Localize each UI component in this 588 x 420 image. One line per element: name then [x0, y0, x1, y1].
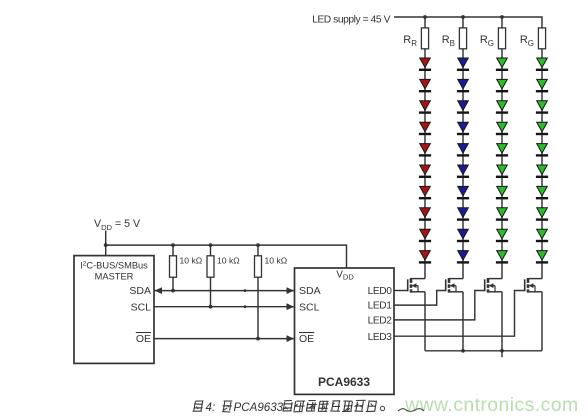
junction R1 on SDA line [171, 289, 175, 293]
wire VDD to R3 [257, 245, 259, 256]
wire VDD to R2 [210, 245, 212, 256]
wire Q2 source drop [462, 292, 464, 351]
LED D1-5 [419, 144, 431, 157]
svg-text:SCL: SCL [299, 302, 320, 314]
wire supply to resistor RG [501, 17, 503, 28]
svg-text:I2C-BUS/SMBus: I2C-BUS/SMBus [80, 261, 148, 271]
junction R2 on SCL line [209, 305, 213, 309]
LED D3-10 [496, 251, 508, 264]
caption figure 4 text [193, 400, 385, 414]
svg-text:4:: 4: [206, 401, 216, 414]
resistor RR1 (RR) [421, 28, 428, 49]
LED D2-9 [457, 229, 469, 242]
svg-text:www.cntronics.com: www.cntronics.com [404, 394, 579, 416]
LED D2-10 [457, 251, 469, 264]
LED D2-6 [457, 165, 469, 178]
wire LED supply rail [394, 17, 542, 28]
wire OE net [154, 338, 295, 340]
wire Q4 source drop [541, 292, 543, 351]
LED D4-9 [536, 229, 548, 242]
wire Q1 source drop [424, 292, 426, 351]
LED D4-3 [536, 101, 548, 114]
wire R2 to SCL line [210, 277, 212, 307]
svg-text:SCL: SCL [131, 302, 152, 314]
svg-text:PCA9633: PCA9633 [234, 401, 284, 414]
LED D2-1 [457, 58, 469, 71]
wire LED string column 2 [462, 49, 464, 279]
junction rail at Q3 source [500, 349, 504, 353]
svg-text:MASTER: MASTER [95, 272, 134, 282]
LED D3-6 [496, 165, 508, 178]
svg-text:LED1: LED1 [368, 301, 393, 312]
LED D2-3 [457, 101, 469, 114]
wire LED string column 1 [424, 49, 426, 279]
wire supply to resistor RR [424, 17, 426, 28]
LED D3-3 [496, 101, 508, 114]
wire SDA net [154, 290, 295, 292]
resistor RG3 (RG) [498, 28, 505, 49]
wire LED0 net to Q1 gate [394, 290, 408, 292]
LED D2-7 [457, 186, 469, 199]
junction VDD rail at R3 [256, 243, 260, 247]
svg-text:PCA9633: PCA9633 [318, 375, 370, 389]
svg-text:10 kΩ: 10 kΩ [180, 256, 203, 266]
wire ground stub [501, 351, 503, 357]
svg-text:LED supply = 45 V: LED supply = 45 V [312, 15, 391, 26]
LED D4-4 [536, 122, 548, 135]
resistor RB2 (RB) [459, 28, 466, 49]
LED D1-9 [419, 229, 431, 242]
LED D3-4 [496, 122, 508, 135]
wire R3 to OE line [257, 277, 259, 338]
LED D1-6 [419, 165, 431, 178]
arrowhead SDA into master [155, 287, 163, 294]
junction small on SCL [244, 305, 247, 308]
LED D1-10 [419, 251, 431, 264]
junction on supply rail at column 3 [500, 15, 504, 19]
LED D3-1 [496, 58, 508, 71]
svg-text:VDD = 5 V: VDD = 5 V [94, 218, 141, 232]
svg-text:10 kΩ: 10 kΩ [217, 256, 240, 266]
resistor R1 10k pull-up (SDA) [170, 256, 177, 277]
junction VDD rail at R1 [171, 243, 175, 247]
wire LED1 net to Q2 gate [394, 291, 446, 306]
LED D3-2 [496, 79, 508, 92]
junction R3 on OE line [256, 337, 260, 341]
wire LED3 net to Q4 gate [394, 291, 525, 337]
wire SCL net [154, 306, 295, 308]
LED D1-7 [419, 186, 431, 199]
LED D3-8 [496, 208, 508, 221]
resistor R2 10k pull-up (SCL) [207, 256, 214, 277]
junction on supply rail at column 1 [423, 15, 427, 19]
LED D4-1 [536, 58, 548, 71]
svg-text:SDA: SDA [299, 285, 321, 297]
wire common source rail [425, 350, 542, 352]
resistor RG4 (RG) [538, 28, 545, 49]
LED D1-4 [419, 122, 431, 135]
resistor R3 10k pull-up (OE) [255, 256, 262, 277]
wire Q3 source drop [501, 292, 503, 351]
junction VDD rail [104, 243, 108, 247]
svg-text:LED2: LED2 [368, 316, 393, 327]
svg-text:LED0: LED0 [368, 286, 393, 297]
junction on supply rail at column 2 [461, 15, 465, 19]
svg-text:10 kΩ: 10 kΩ [265, 256, 288, 266]
svg-text:SDA: SDA [129, 285, 151, 297]
svg-text:OE: OE [136, 333, 151, 345]
wire R1 to SDA line [172, 277, 174, 290]
LED D1-2 [419, 79, 431, 92]
transistor Q1 (N-MOSFET) [408, 278, 425, 293]
decoration scribble [398, 409, 424, 412]
wire VDD to R1 [172, 245, 174, 256]
junction small on SDA [244, 289, 247, 292]
arrowhead OE into PCA9633 [287, 335, 295, 342]
LED D1-3 [419, 101, 431, 114]
arrowhead SDA into PCA9633 [287, 287, 295, 294]
wire LED2 net to Q3 gate [394, 291, 485, 320]
wire VDD rail [106, 245, 347, 268]
LED D4-6 [536, 165, 548, 178]
LED D4-10 [536, 251, 548, 264]
junction rail at Q2 source [461, 349, 465, 353]
LED D2-4 [457, 122, 469, 135]
IC U1 I2C-bus/SMBus master box [74, 256, 154, 364]
transistor Q4 (N-MOSFET) [525, 278, 542, 293]
transistor Q2 (N-MOSFET) [446, 278, 463, 293]
svg-text:LED3: LED3 [368, 332, 393, 343]
LED D2-2 [457, 79, 469, 92]
LED D1-8 [419, 208, 431, 221]
transistor Q3 (N-MOSFET) [485, 278, 502, 293]
svg-text:OE: OE [299, 333, 314, 345]
LED D3-5 [496, 144, 508, 157]
LED D3-7 [496, 186, 508, 199]
arrowhead SCL into PCA9633 [287, 303, 295, 310]
LED D4-7 [536, 186, 548, 199]
junction VDD rail at R2 [209, 243, 213, 247]
LED D1-1 [419, 58, 431, 71]
LED D2-5 [457, 144, 469, 157]
LED D2-8 [457, 208, 469, 221]
wire LED string column 3 [501, 49, 503, 279]
LED D4-2 [536, 79, 548, 92]
LED D4-5 [536, 144, 548, 157]
LED D3-9 [496, 229, 508, 242]
wire LED string column 4 [541, 49, 543, 279]
LED D4-8 [536, 208, 548, 221]
IC U2 PCA9633 box [295, 268, 395, 394]
wire supply to resistor RB [462, 17, 464, 28]
wire VDD drop to master [105, 231, 107, 256]
